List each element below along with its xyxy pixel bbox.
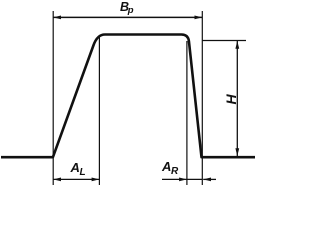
wire: AR dimension line with outside arrows	[162, 178, 202, 180]
node: rise-end extension line	[98, 37, 100, 185]
wire: Bp dimension line	[53, 16, 202, 18]
svg-text:p: p	[127, 5, 134, 16]
wire: H top reference line	[202, 40, 246, 42]
wire: AL dimension line	[53, 178, 99, 180]
node: fall-end / pulse end extension line	[201, 11, 203, 185]
node: fall-start extension line	[186, 41, 188, 185]
svg-text:A: A	[161, 159, 171, 174]
svg-text:A: A	[70, 160, 80, 175]
node: left extension line (pulse start)	[52, 11, 54, 185]
wire: pulse waveform (baseline, rise, plateau, fall, baseline)	[1, 35, 255, 158]
wire: H dimension line	[236, 41, 238, 156]
svg-text:H: H	[223, 94, 239, 105]
svg-text:L: L	[80, 167, 86, 178]
svg-text:R: R	[171, 166, 179, 177]
